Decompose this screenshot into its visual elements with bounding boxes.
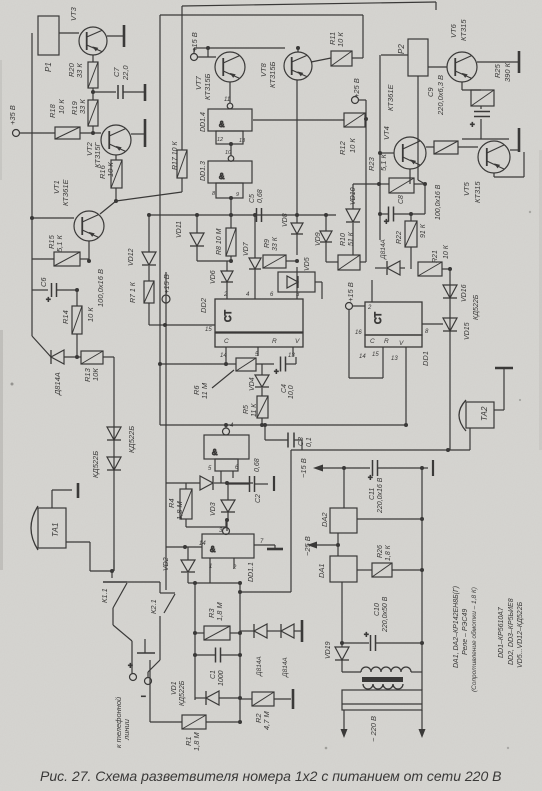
svg-text:С: С xyxy=(370,338,375,345)
svg-text:DD2: DD2 xyxy=(199,297,208,313)
svg-text:VD2: VD2 xyxy=(163,557,170,571)
svg-text:VT6: VT6 xyxy=(449,23,458,38)
svg-text:DA1, DA2–КР142ЕН8Б(Г): DA1, DA2–КР142ЕН8Б(Г) xyxy=(453,586,460,668)
svg-text:2: 2 xyxy=(232,565,237,571)
svg-text:2: 2 xyxy=(223,292,228,298)
svg-text:+: + xyxy=(384,217,389,226)
svg-text:С3: С3 xyxy=(298,437,305,446)
svg-text:CT: CT xyxy=(223,310,233,322)
svg-text:−15 В: −15 В xyxy=(299,458,308,478)
svg-text:R: R xyxy=(272,338,277,345)
svg-text:1: 1 xyxy=(209,564,212,570)
svg-text:&: & xyxy=(219,172,225,181)
svg-text:&: & xyxy=(210,545,216,554)
svg-text:КТ315: КТ315 xyxy=(473,181,482,203)
svg-text:5,1 К: 5,1 К xyxy=(55,234,64,252)
svg-text:R8 10 М: R8 10 М xyxy=(216,228,223,255)
svg-text:К2.1: К2.1 xyxy=(149,599,158,614)
svg-text:КТ361Е: КТ361Е xyxy=(386,83,395,111)
svg-text:+35 В: +35 В xyxy=(8,105,17,125)
svg-text:С: С xyxy=(224,338,229,345)
svg-text:V: V xyxy=(399,340,404,347)
svg-text:VD7: VD7 xyxy=(243,241,250,256)
svg-text:VD4: VD4 xyxy=(249,377,256,391)
svg-text:0,68: 0,68 xyxy=(257,189,264,203)
svg-text:+15 В: +15 В xyxy=(190,32,199,52)
svg-text:33 К: 33 К xyxy=(272,236,279,251)
svg-text:14: 14 xyxy=(359,354,366,360)
svg-text:+15 В: +15 В xyxy=(346,282,355,302)
svg-text:22,0: 22,0 xyxy=(121,65,130,81)
svg-text:R14: R14 xyxy=(61,310,70,324)
svg-text:9: 9 xyxy=(236,192,239,198)
svg-text:+25 В: +25 В xyxy=(352,78,361,98)
svg-text:P2: P2 xyxy=(397,44,406,54)
svg-text:100,0х16 В: 100,0х16 В xyxy=(96,269,105,307)
svg-text:С1: С1 xyxy=(210,670,217,679)
svg-text:DD1.1: DD1.1 xyxy=(248,562,255,582)
svg-text:Д814А: Д814А xyxy=(282,657,289,678)
svg-text:1000: 1000 xyxy=(218,670,225,686)
svg-text:VT4: VT4 xyxy=(382,126,391,140)
svg-text:12: 12 xyxy=(217,137,223,143)
svg-text:33 К: 33 К xyxy=(78,99,87,114)
svg-text:КД522Б: КД522Б xyxy=(91,451,100,478)
svg-text:Д814А: Д814А xyxy=(53,372,62,396)
svg-text:VD19: VD19 xyxy=(325,641,332,659)
svg-text:220,0х6,3 В: 220,0х6,3 В xyxy=(436,75,445,116)
svg-text:DD2, DD3–КР5ЬИЕ8: DD2, DD3–КР5ЬИЕ8 xyxy=(508,598,515,665)
svg-text:КТ361Е: КТ361Е xyxy=(61,178,70,206)
svg-text:15: 15 xyxy=(205,327,212,333)
svg-text:КД522Б: КД522Б xyxy=(179,680,186,706)
svg-text:11 К: 11 К xyxy=(251,403,258,417)
svg-text:R18: R18 xyxy=(48,103,57,118)
svg-text:С8: С8 xyxy=(398,195,405,204)
svg-text:10 К: 10 К xyxy=(348,138,357,153)
svg-text:VD15: VD15 xyxy=(464,322,471,340)
svg-text:VD3: VD3 xyxy=(210,502,217,516)
svg-text:С5: С5 xyxy=(249,194,256,203)
svg-text:1,8 М: 1,8 М xyxy=(175,500,184,520)
svg-text:390 К: 390 К xyxy=(503,62,512,82)
svg-text:R: R xyxy=(384,338,389,345)
svg-text:100,0х16 В: 100,0х16 В xyxy=(435,184,442,220)
svg-text:КД522Б: КД522Б xyxy=(127,426,136,453)
svg-text:R22: R22 xyxy=(396,231,403,244)
svg-text:P1: P1 xyxy=(44,62,53,72)
svg-text:4,7 М: 4,7 М xyxy=(262,710,271,730)
svg-text:R21: R21 xyxy=(432,250,439,263)
svg-text:15: 15 xyxy=(372,352,379,358)
svg-text:ТА1: ТА1 xyxy=(51,523,60,537)
svg-text:10 К: 10 К xyxy=(443,244,450,259)
svg-text:VT1: VT1 xyxy=(52,180,61,194)
svg-text:VT5: VT5 xyxy=(462,181,471,196)
svg-text:+: + xyxy=(46,295,51,304)
svg-text:VD5...VD12–КД522Б: VD5...VD12–КД522Б xyxy=(517,601,524,668)
svg-text:КТ315Б: КТ315Б xyxy=(203,73,212,100)
svg-text:VD5: VD5 xyxy=(304,257,311,271)
svg-text:R10: R10 xyxy=(340,233,347,246)
svg-text:11: 11 xyxy=(224,97,230,103)
svg-text:Д814А: Д814А xyxy=(256,656,263,677)
svg-text:220,0х50 В: 220,0х50 В xyxy=(382,596,389,633)
svg-text:16: 16 xyxy=(355,330,362,336)
svg-text:13: 13 xyxy=(288,353,295,359)
svg-text:КТ315: КТ315 xyxy=(459,19,468,41)
svg-text:14: 14 xyxy=(220,353,227,359)
svg-text:КТ315Б: КТ315Б xyxy=(268,61,277,88)
svg-text:R7 1 К: R7 1 К xyxy=(130,281,137,303)
svg-text:VD11: VD11 xyxy=(176,221,183,238)
svg-text:13: 13 xyxy=(391,356,398,362)
svg-text:10 К: 10 К xyxy=(57,99,66,114)
svg-text:CT: CT xyxy=(373,312,383,324)
svg-text:+: + xyxy=(274,367,279,376)
svg-text:91 К: 91 К xyxy=(420,223,427,238)
svg-text:10К: 10К xyxy=(91,368,100,381)
svg-text:−25 В: −25 В xyxy=(303,536,312,556)
svg-text:R9: R9 xyxy=(264,239,271,248)
svg-text:5,1 К: 5,1 К xyxy=(379,153,388,171)
svg-text:~ 220 В: ~ 220 В xyxy=(369,716,378,742)
svg-text:10: 10 xyxy=(225,150,232,156)
svg-text:&: & xyxy=(219,120,225,129)
svg-text:Реле – РЭС49: Реле – РЭС49 xyxy=(462,609,469,655)
svg-text:1,8 М: 1,8 М xyxy=(215,601,224,621)
svg-text:КД522Б: КД522Б xyxy=(473,294,480,320)
svg-text:0,68: 0,68 xyxy=(254,458,261,472)
svg-text:VD8: VD8 xyxy=(282,213,289,227)
svg-text:С7: С7 xyxy=(112,67,121,77)
svg-text:линии: линии xyxy=(122,718,131,741)
svg-text:(Сопротивление обмотки – 1,8 К: (Сопротивление обмотки – 1,8 К) xyxy=(470,587,478,692)
svg-text:10,0: 10,0 xyxy=(288,385,295,399)
svg-text:DA1: DA1 xyxy=(317,563,326,578)
svg-text:2: 2 xyxy=(367,305,372,311)
svg-text:R23: R23 xyxy=(367,156,376,171)
svg-text:13: 13 xyxy=(239,138,246,144)
svg-text:С4: С4 xyxy=(281,384,288,393)
svg-text:1,8 М: 1,8 М xyxy=(192,731,201,751)
svg-text:VT7: VT7 xyxy=(194,75,203,90)
svg-text:DA2: DA2 xyxy=(320,512,329,527)
svg-text:14: 14 xyxy=(199,541,206,547)
svg-text:DD1.3: DD1.3 xyxy=(200,161,207,181)
svg-text:R25: R25 xyxy=(493,63,502,78)
svg-text:+: + xyxy=(364,630,369,639)
svg-text:R26: R26 xyxy=(377,545,384,558)
svg-text:11 М: 11 М xyxy=(200,382,209,399)
svg-text:10 К: 10 К xyxy=(86,307,95,322)
svg-text:R17 10 К: R17 10 К xyxy=(172,140,179,170)
svg-text:VD9: VD9 xyxy=(315,232,322,246)
svg-text:С11: С11 xyxy=(369,488,376,500)
svg-text:VD12: VD12 xyxy=(128,248,135,266)
svg-text:VD1: VD1 xyxy=(171,681,178,695)
svg-text:С10: С10 xyxy=(374,603,381,616)
svg-text:0,1: 0,1 xyxy=(306,437,313,447)
svg-text:VD6: VD6 xyxy=(210,270,217,284)
svg-text:С6: С6 xyxy=(39,277,48,287)
svg-text:DD1: DD1 xyxy=(421,351,430,366)
svg-text:КТ315Г: КТ315Г xyxy=(93,141,102,168)
svg-text:220,0х16 В: 220,0х16 В xyxy=(377,477,384,514)
svg-text:Д814А: Д814А xyxy=(380,239,387,260)
svg-text:ТА2: ТА2 xyxy=(480,406,489,421)
svg-text:VT3: VT3 xyxy=(69,6,78,21)
svg-text:+: + xyxy=(470,120,475,129)
svg-text:−: − xyxy=(141,692,146,701)
svg-text:33 К: 33 К xyxy=(75,63,84,78)
svg-text:VD10: VD10 xyxy=(350,187,357,205)
svg-text:V: V xyxy=(295,338,300,345)
svg-text:+: + xyxy=(368,473,373,482)
svg-text:DD1.4: DD1.4 xyxy=(200,112,207,132)
svg-text:+15 В: +15 В xyxy=(162,274,171,294)
svg-text:10 К: 10 К xyxy=(336,32,345,47)
svg-text:VD16: VD16 xyxy=(461,284,468,302)
svg-text:Рис. 27. Схема разветвителя но: Рис. 27. Схема разветвителя номера 1х2 с… xyxy=(40,768,501,784)
svg-text:51 К: 51 К xyxy=(348,231,355,246)
svg-text:1,8 К: 1,8 К xyxy=(385,544,392,561)
svg-text:VT8: VT8 xyxy=(259,62,268,77)
svg-text:R12: R12 xyxy=(338,140,347,155)
svg-text:R5: R5 xyxy=(243,405,250,414)
svg-text:&: & xyxy=(212,448,218,457)
svg-text:С9: С9 xyxy=(426,87,435,97)
svg-text:DD1–КР5610А7: DD1–КР5610А7 xyxy=(498,606,505,658)
svg-text:10 К: 10 К xyxy=(106,162,115,177)
svg-text:С2: С2 xyxy=(255,494,262,503)
svg-text:К1.1: К1.1 xyxy=(100,588,109,603)
